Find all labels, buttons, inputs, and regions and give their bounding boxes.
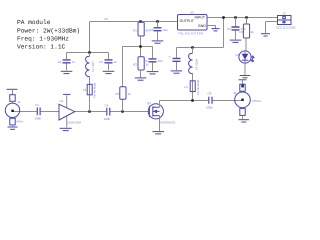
wire: vertical 5V feed xyxy=(89,22,91,53)
svg-text:C3: C3 xyxy=(99,60,103,64)
svg-text:ERA-5SM: ERA-5SM xyxy=(68,120,82,124)
svg-text:100n: 100n xyxy=(104,117,111,121)
node: 5V rail junction xyxy=(88,51,90,53)
inductor L1 (choke on amp bias) xyxy=(86,53,95,85)
svg-text:1n: 1n xyxy=(114,60,118,64)
svg-text:100n: 100n xyxy=(35,117,42,121)
svg-text:C8: C8 xyxy=(208,92,212,96)
svg-text:10u: 10u xyxy=(158,59,163,63)
svg-text:VCC 11.2-13.8V: VCC 11.2-13.8V xyxy=(276,26,296,30)
svg-text:C1: C1 xyxy=(35,103,39,107)
svg-text:J2: J2 xyxy=(233,91,237,95)
title text block xyxy=(17,19,80,50)
ferrite bead FB2 xyxy=(185,79,201,100)
svg-text:J3: J3 xyxy=(283,11,287,15)
svg-text:C5: C5 xyxy=(144,59,148,63)
svg-text:78L05/SOT89: 78L05/SOT89 xyxy=(178,31,203,35)
resistor R1 (divider top) xyxy=(133,20,151,57)
resistor R4 (LED series) xyxy=(240,16,255,51)
svg-text:RFin: RFin xyxy=(17,119,24,123)
inductor L3 (drain choke) xyxy=(189,48,199,81)
wire: drain supply rail xyxy=(177,47,224,49)
svg-text:PA module: PA module xyxy=(17,19,51,26)
svg-text:R1: R1 xyxy=(133,29,137,33)
svg-text:C2: C2 xyxy=(58,60,62,64)
wire: divider rail xyxy=(123,46,153,48)
wire: 12V drop to drain rail xyxy=(223,18,225,48)
capacitor C6 (5V rail decoupling) xyxy=(150,22,168,44)
connector J3 VCC xyxy=(261,11,296,36)
svg-text:OUTPUT: OUTPUT xyxy=(180,19,195,23)
svg-text:Power: 2W(+33dBm): Power: 2W(+33dBm) xyxy=(17,27,80,34)
node: drain line junction xyxy=(191,99,193,101)
wire: right 12V rail xyxy=(207,17,273,19)
svg-text:1k: 1k xyxy=(128,92,132,96)
connector J2 RF out xyxy=(233,80,261,122)
wire: main input line xyxy=(13,111,149,113)
node: output rail cap junction xyxy=(156,20,158,22)
wire: 5V distribution rail xyxy=(67,52,109,54)
ferrite bead FB1 xyxy=(83,82,97,111)
capacitor C9 (12V rail decoupling) xyxy=(227,16,246,42)
node: amp output junction xyxy=(88,110,90,112)
svg-text:C4: C4 xyxy=(105,103,109,107)
svg-text:1k: 1k xyxy=(251,30,255,34)
node: drain rail tap xyxy=(222,16,224,18)
capacitor C5 (divider decoupling) xyxy=(144,47,163,74)
svg-text:L2: L2 xyxy=(83,88,87,92)
resistor R2 (divider bottom) xyxy=(133,57,149,80)
op-amp U1 driver amp xyxy=(59,94,81,130)
svg-text:L4 22uH: L4 22uH xyxy=(195,59,199,70)
svg-text:R3: R3 xyxy=(116,92,120,96)
voltage regulator U2 xyxy=(178,11,208,36)
capacitor C2 (5V rail left) xyxy=(58,53,76,74)
connector J1 RF in xyxy=(5,89,23,129)
wire: gate bias drop xyxy=(122,47,124,112)
capacitor C8 (output series) xyxy=(206,92,213,110)
node: choke junction on drain rail xyxy=(191,46,193,48)
wire: drain line xyxy=(160,101,243,104)
svg-text:U1: U1 xyxy=(60,99,64,103)
svg-text:RFout: RFout xyxy=(253,99,261,103)
svg-text:Q1: Q1 xyxy=(147,101,151,105)
svg-text:Freq: 1-930MHz: Freq: 1-930MHz xyxy=(17,36,69,43)
svg-text:RD07MVS1: RD07MVS1 xyxy=(160,120,176,124)
wire: 5V output rail xyxy=(90,21,178,23)
svg-text:100p: 100p xyxy=(206,105,213,109)
svg-text:1k: 1k xyxy=(146,63,150,67)
svg-text:Ferrite bead: Ferrite bead xyxy=(93,82,97,98)
resistor R3 (gate series) xyxy=(116,87,132,99)
capacitor C4 (interstage) xyxy=(104,103,111,121)
svg-text:R2: R2 xyxy=(133,63,137,67)
capacitor C1 (input series) xyxy=(35,103,42,121)
svg-text:10u: 10u xyxy=(163,28,168,32)
svg-text:+: + xyxy=(169,55,171,59)
svg-text:L5: L5 xyxy=(185,85,189,89)
LED D1 xyxy=(236,51,255,78)
svg-text:L1 1mH: L1 1mH xyxy=(91,61,95,72)
svg-text:Version: 1.1C: Version: 1.1C xyxy=(17,43,66,50)
svg-text:GND: GND xyxy=(198,24,206,28)
svg-text:J1: J1 xyxy=(18,100,22,104)
svg-text:C6: C6 xyxy=(150,28,154,32)
node: gate junction xyxy=(121,110,123,112)
node: divider junction xyxy=(139,45,141,47)
svg-text:1n: 1n xyxy=(72,60,76,64)
MOSFET Q1 xyxy=(147,101,176,134)
svg-text:5V: 5V xyxy=(105,17,109,21)
capacitor C3 (5V rail right) xyxy=(99,53,117,74)
svg-text:INPUT: INPUT xyxy=(195,16,206,20)
svg-text:C9: C9 xyxy=(227,27,231,31)
capacitor C7 (input filter electrolytic) xyxy=(169,48,183,74)
svg-text:Ferrite bead: Ferrite bead xyxy=(196,79,200,95)
ground: regulator GND xyxy=(207,26,220,31)
